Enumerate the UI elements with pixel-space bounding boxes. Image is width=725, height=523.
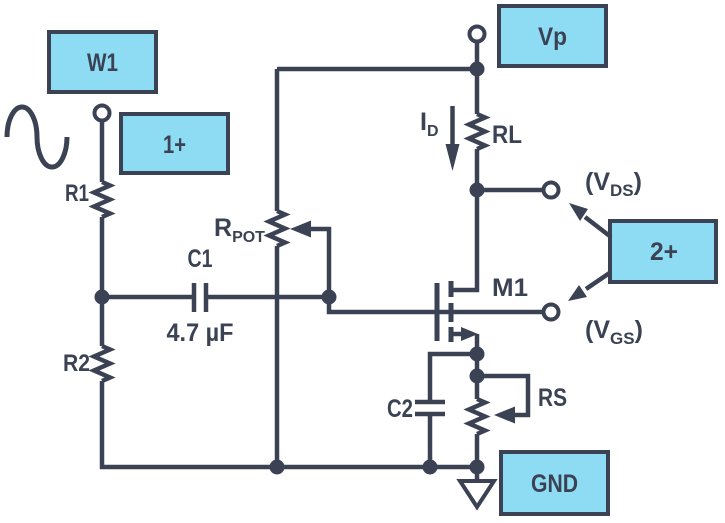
wire Vp node to RL bbox=[475, 69, 480, 114]
svg-text:C1: C1 bbox=[188, 245, 213, 273]
wire C1 left segment bbox=[102, 295, 194, 300]
terminal VGS (open circle) bbox=[544, 305, 559, 320]
wire left vertical (circle to R1) bbox=[100, 120, 105, 182]
node RS wiper junction bbox=[470, 369, 485, 384]
wire drain down to MOSFET bbox=[451, 190, 477, 290]
wire gate from node to VGS terminal bbox=[329, 297, 544, 312]
svg-text:1+: 1+ bbox=[163, 131, 186, 159]
wire GND stub bbox=[475, 467, 480, 481]
wire C2 bottom to rail bbox=[428, 416, 433, 467]
RS wiper arrow bbox=[477, 376, 528, 424]
capacitor C1 bbox=[194, 283, 206, 312]
potentiometer RPOT bbox=[269, 211, 285, 246]
resistor R1 bbox=[94, 182, 110, 217]
wire top rail bbox=[277, 67, 477, 72]
svg-text:(VGS): (VGS) bbox=[585, 316, 643, 348]
svg-text:RPOT: RPOT bbox=[214, 214, 265, 246]
node source junction bbox=[470, 347, 485, 362]
svg-text:2+: 2+ bbox=[650, 238, 678, 266]
terminal Vp (open circle) bbox=[470, 27, 485, 42]
resistor R2 bbox=[94, 346, 110, 381]
label box GND bbox=[501, 452, 608, 514]
wire node to R2 bbox=[100, 297, 105, 346]
label box W1 bbox=[49, 32, 156, 92]
wire RPOT bottom to rail bbox=[275, 246, 280, 467]
wire Vp terminal to node bbox=[475, 41, 480, 69]
wire RPOT branch vertical top bbox=[275, 69, 280, 211]
node bottom rail GND bbox=[470, 460, 485, 475]
label box Vp bbox=[499, 6, 606, 66]
svg-text:GND: GND bbox=[531, 470, 578, 498]
RPOT wiper arrow bbox=[290, 221, 329, 296]
label box 2+ bbox=[610, 221, 716, 282]
label box 1+ bbox=[121, 114, 228, 173]
svg-text:W1: W1 bbox=[87, 49, 118, 77]
node bottom rail RPOT bbox=[270, 460, 285, 475]
svg-text:RS: RS bbox=[538, 384, 567, 412]
node RPOT wiper / C1 / gate junction bbox=[322, 290, 337, 305]
svg-text:4.7 µF: 4.7 µF bbox=[167, 319, 234, 347]
resistor RL bbox=[469, 114, 485, 149]
svg-text:ID: ID bbox=[420, 108, 439, 140]
wire drain node to VDS terminal bbox=[477, 188, 544, 193]
svg-text:C2: C2 bbox=[387, 395, 413, 423]
svg-text:(VDS): (VDS) bbox=[585, 168, 642, 200]
svg-text:R1: R1 bbox=[65, 180, 89, 207]
node R1/R2/C1 junction bbox=[95, 290, 110, 305]
wire R1 to C1 node bbox=[100, 217, 105, 297]
resistor RS bbox=[469, 399, 485, 434]
wire C1 right segment to node bbox=[206, 295, 329, 300]
node Vp junction bbox=[470, 62, 485, 77]
wire source node to C2 bbox=[430, 354, 477, 400]
ground symbol bbox=[460, 481, 494, 507]
arrow 2+ to VGS bbox=[568, 272, 611, 301]
transistor M1 gate bar bbox=[435, 283, 440, 341]
svg-text:M1: M1 bbox=[492, 274, 528, 302]
current arrow ID bbox=[446, 106, 460, 171]
terminal W1 output (open circle) bbox=[95, 106, 110, 121]
arrow 2+ to VDS bbox=[569, 203, 611, 237]
transistor M1 channel segments bbox=[449, 281, 454, 342]
wire R2 to bottom rail and bottom rail to GND bbox=[102, 381, 477, 467]
wire RS bottom to rail bbox=[475, 434, 480, 467]
wire source node to RS bbox=[475, 354, 480, 399]
sine wave source symbol bbox=[7, 107, 67, 167]
node drain junction bbox=[470, 183, 485, 198]
terminal VDS (open circle) bbox=[544, 183, 559, 198]
node bottom rail C2 bbox=[423, 460, 438, 475]
transistor M1 source stub and arrow bbox=[451, 327, 478, 354]
svg-text:Vp: Vp bbox=[538, 23, 567, 51]
svg-text:R2: R2 bbox=[63, 350, 90, 377]
wire RL to drain node bbox=[475, 149, 480, 190]
svg-text:RL: RL bbox=[492, 121, 522, 149]
capacitor C2 bbox=[415, 402, 445, 414]
